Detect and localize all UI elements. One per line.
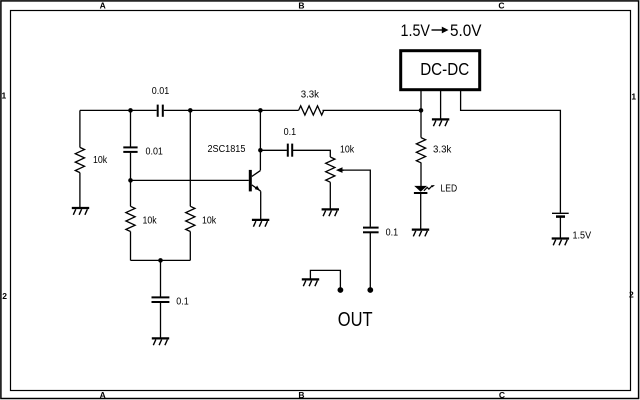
wire top rail right segment (323, 109, 422, 111)
svg-text:C: C (499, 390, 505, 400)
svg-text:10k: 10k (202, 216, 217, 227)
svg-text:0.1: 0.1 (284, 127, 297, 138)
wire C2 top lead from rail (130, 110, 132, 146)
wire C3 bottom lead to ground (160, 303, 162, 338)
node junction collector-C5 (258, 148, 263, 153)
wire bottom joining segment (131, 259, 191, 261)
capacitor C2 0.01 plates (123, 147, 137, 152)
capacitor C3 0.1 plates (152, 297, 170, 302)
wire DC-DC middle lead to ground (440, 91, 442, 119)
wire DC-DC right lead to battery (461, 91, 561, 213)
wire C2 bottom lead to base rail (130, 153, 132, 181)
wire top rail left segment (80, 109, 157, 111)
svg-text:1: 1 (631, 91, 636, 101)
ground LED branch (412, 230, 429, 237)
wire top rail middle segment (164, 109, 299, 111)
resistor R4 3.3k vertical LED branch (416, 138, 425, 163)
potentiometer VR1 10k resistor body (326, 157, 335, 182)
ground potentiometer (322, 209, 339, 216)
wire emitter to ground (260, 191, 262, 219)
svg-text:0.1: 0.1 (386, 228, 399, 239)
wire OUT left pin to ground (310, 270, 340, 289)
capacitor C4 0.1 plates (363, 228, 379, 233)
node junction R2-R3 bottom (158, 258, 163, 263)
wire LED branch top lead (420, 110, 422, 137)
ground DC-DC middle lead (432, 119, 449, 126)
wire LED to ground (420, 194, 422, 229)
resistor R1 10k vertical left (75, 147, 84, 172)
svg-text:OUT: OUT (338, 308, 373, 331)
node junction rail-C2 (128, 108, 133, 113)
ground OUT left pin (302, 279, 319, 286)
svg-text:C: C (498, 1, 504, 11)
node junction rail-DCDC (419, 108, 424, 113)
wire wiper to C4 (342, 170, 371, 227)
svg-text:5.0V: 5.0V (450, 22, 482, 40)
svg-text:10k: 10k (93, 155, 108, 166)
node junction rail-feedback (188, 108, 193, 113)
resistor R3 10k vertical (186, 206, 195, 231)
transistor Q1 2SC1815 (249, 170, 261, 192)
svg-text:1.5V: 1.5V (573, 230, 592, 241)
label title arrow (432, 27, 449, 34)
ground emitter Q1 (252, 220, 269, 227)
svg-text:1: 1 (2, 91, 7, 101)
battery B1 1.5V (552, 213, 569, 216)
svg-text:B: B (298, 390, 304, 400)
wire C5 to potentiometer top (293, 150, 330, 157)
wire R3 bottom lead (189, 232, 191, 261)
svg-text:2SC1815: 2SC1815 (208, 144, 246, 155)
node OUT pin right (367, 287, 373, 293)
ground R1 (72, 208, 89, 215)
svg-text:3.3k: 3.3k (301, 90, 320, 101)
svg-text:LED: LED (441, 184, 458, 195)
wire C4 bottom lead to OUT pin (369, 232, 371, 289)
wire R1 top lead (79, 110, 81, 147)
svg-text:2: 2 (629, 289, 634, 299)
wire R2 top lead from base rail (130, 180, 132, 206)
ground battery (552, 239, 569, 246)
DC-DC converter U1 box (401, 51, 480, 90)
wire DC-DC left lead (420, 91, 422, 110)
wire collector vertical (259, 110, 261, 170)
wire C3 top lead (160, 260, 162, 296)
wire pot bottom lead to ground (329, 182, 331, 208)
svg-text:3.3k: 3.3k (433, 145, 452, 156)
svg-text:DC-DC: DC-DC (420, 59, 469, 79)
LED D1 (414, 185, 435, 193)
node junction rail-collector (258, 108, 263, 113)
svg-text:10k: 10k (143, 216, 158, 227)
node junction base rail (128, 178, 133, 183)
potentiometer VR1 wiper arrow (336, 167, 344, 173)
svg-text:1.5V: 1.5V (401, 22, 431, 40)
svg-text:0.1: 0.1 (176, 297, 189, 308)
capacitor C1 0.01 top plates (158, 105, 163, 117)
svg-text:A: A (100, 390, 106, 400)
svg-text:0.01: 0.01 (152, 86, 170, 97)
ground C3 (152, 338, 169, 345)
wire base rail (131, 179, 249, 181)
svg-text:2: 2 (2, 291, 7, 301)
svg-text:A: A (100, 1, 106, 11)
svg-text:B: B (298, 1, 304, 11)
capacitor C5 0.1 plates (288, 144, 292, 157)
wire collector node to C5 (260, 149, 287, 151)
resistor R2 10k vertical (126, 206, 135, 231)
wire feedback branch vertical (189, 110, 191, 206)
resistor R5 3.3k horizontal (299, 106, 324, 115)
wire R1 bottom lead to ground (79, 173, 81, 207)
svg-text:0.01: 0.01 (146, 147, 164, 158)
wire R2 bottom lead (130, 232, 132, 261)
node OUT pin left (338, 287, 344, 293)
wire battery to ground (559, 218, 561, 238)
svg-text:10k: 10k (340, 144, 355, 155)
wire R4 to LED (420, 163, 422, 187)
